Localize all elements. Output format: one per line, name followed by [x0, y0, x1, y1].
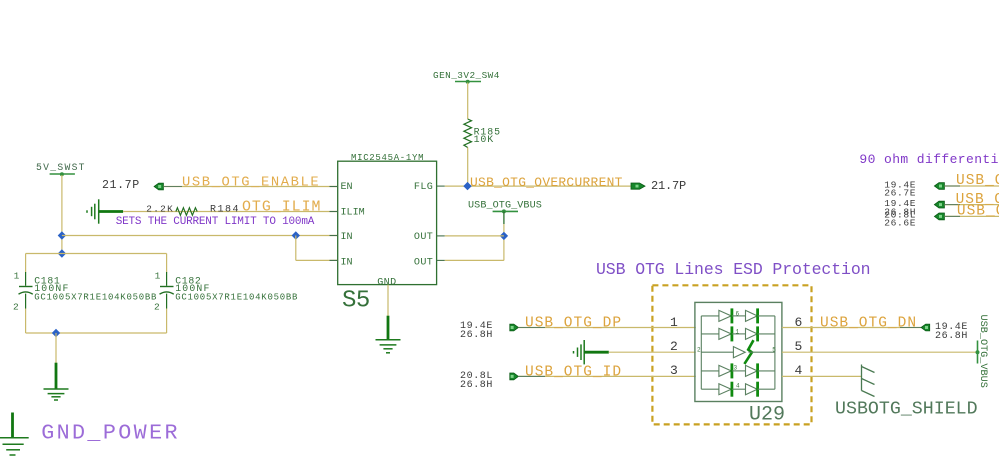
node junction OUT: [500, 232, 508, 240]
svg-text:USB_OTG_OVERCURRENT: USB_OTG_OVERCURRENT: [470, 175, 623, 190]
wire OUT1: [445, 235, 504, 237]
svg-text:S5: S5: [342, 288, 370, 315]
wire C181 top leg: [25, 254, 27, 273]
svg-text:R184: R184: [210, 205, 240, 216]
svg-text:GC1005X7R1E104K050BB: GC1005X7R1E104K050BB: [175, 293, 298, 303]
wire stub (green) ID: [518, 375, 545, 377]
wire C182 bottom leg: [166, 309, 168, 334]
wire right 1: [944, 185, 999, 187]
power flag 5V_SWST: [36, 162, 86, 176]
capacitor C181: [13, 271, 157, 313]
svg-text:USB_OTG_DP: USB_OTG_DP: [525, 315, 622, 331]
svg-text:GEN_3V2_SW4: GEN_3V2_SW4: [433, 70, 500, 81]
wire stub (green) DP: [518, 327, 545, 329]
supply USB_OTG_VBUS (mid): [468, 201, 542, 225]
svg-text:2: 2: [670, 339, 678, 354]
node junction cap rail: [58, 249, 66, 257]
wire IN2 drop: [295, 236, 297, 261]
wire VBUS drop: [503, 224, 505, 260]
ground (ILIM, rotated): [87, 199, 123, 223]
svg-text:3: 3: [670, 363, 678, 378]
wire C181 bottom leg: [25, 309, 27, 334]
wire 5V_SWST vertical: [61, 175, 63, 254]
arrow port right 3: [934, 213, 944, 220]
wire R185 top: [467, 83, 469, 120]
ground (IC): [376, 316, 401, 353]
svg-text:2: 2: [13, 302, 19, 313]
arrow port overcurrent: [631, 183, 645, 189]
svg-text:U29: U29: [749, 404, 785, 427]
arrow port USB_OTG_ID: [510, 373, 519, 380]
svg-text:USB OTG Lines ESD Protection: USB OTG Lines ESD Protection: [596, 260, 870, 279]
diode pair row D: [701, 363, 775, 378]
svg-text:4: 4: [795, 363, 803, 378]
wire stub (green) enable: [163, 186, 182, 188]
wire ESD pin5 to VBUS: [782, 351, 978, 353]
node junction IN2: [292, 231, 300, 239]
wire ESD pin2: [609, 351, 696, 353]
op-amp/regulator U S5 MIC2545A-1YM: [338, 153, 437, 315]
svg-text:1: 1: [736, 329, 740, 336]
svg-text:MIC2545A-1YM: MIC2545A-1YM: [351, 153, 424, 163]
svg-text:26.8H: 26.8H: [935, 331, 968, 342]
svg-text:26.6E: 26.6E: [884, 217, 916, 228]
wire stub (green) right 3: [944, 215, 960, 217]
wire OUT2: [445, 259, 504, 261]
ESD chip U29: [695, 302, 785, 426]
wire stub (green) right 2: [944, 204, 960, 206]
svg-text:EN: EN: [341, 182, 353, 193]
svg-text:26.8H: 26.8H: [460, 380, 493, 391]
svg-text:2: 2: [154, 302, 160, 313]
wire USB_OTG_ENABLE: [163, 186, 337, 188]
svg-text:10K: 10K: [474, 134, 494, 145]
node junction gnd rail: [52, 329, 60, 337]
node junction 5V/IN: [58, 231, 66, 239]
svg-text:USB_OTG_ID: USB_OTG_ID: [525, 364, 622, 380]
svg-text:1: 1: [155, 271, 161, 282]
ground legend GND_POWER: [0, 413, 180, 456]
wire right 3: [944, 215, 999, 217]
resistor R184: [176, 208, 197, 216]
pin stubs left (EN/ILIM/IN/IN): [330, 187, 338, 261]
wire USB_OTG_DP: [518, 327, 695, 329]
wire R185 bottom: [467, 148, 469, 187]
svg-text:ILIM: ILIM: [341, 208, 365, 219]
svg-text:1: 1: [670, 315, 678, 330]
wire GND pin: [387, 285, 389, 317]
svg-text:FLG: FLG: [414, 182, 433, 193]
wire stub (green) DN: [900, 327, 921, 329]
svg-text:26.7E: 26.7E: [884, 187, 916, 198]
wire cap top rail: [26, 253, 167, 255]
svg-text:USB_OT: USB_OT: [957, 204, 999, 220]
power flag GEN_3V2_SW4: [433, 70, 500, 84]
wire stub (green) right 1: [944, 185, 960, 187]
svg-text:6: 6: [736, 311, 740, 318]
wire ILIM: [123, 211, 338, 213]
wire USB_OTG_DN: [782, 327, 921, 329]
svg-text:2.2K: 2.2K: [146, 203, 174, 214]
supply USB_OTG_VBUS (right, rotated): [976, 315, 989, 388]
svg-text:IN: IN: [341, 232, 353, 243]
capacitor C182: [154, 271, 298, 313]
arrow port USB_OTG_DN: [921, 324, 930, 331]
svg-text:GC1005X7R1E104K050BB: GC1005X7R1E104K050BB: [34, 293, 157, 303]
svg-text:USB_OTG_VBUS: USB_OTG_VBUS: [977, 315, 988, 388]
svg-text:GND: GND: [377, 277, 396, 288]
diode pair row B: [701, 326, 775, 341]
wire C182 top leg: [166, 254, 168, 273]
resistor R185: [464, 119, 472, 148]
TVS diode row C: [697, 340, 776, 364]
svg-text:OUT: OUT: [414, 257, 433, 268]
wire right 2: [944, 204, 999, 206]
wire gnd drop: [55, 333, 57, 364]
node junction FLG: [463, 182, 471, 190]
shield symbol USBOTG_SHIELD: [862, 365, 875, 397]
svg-text:5: 5: [772, 346, 776, 353]
pin stubs right (FLG/OUT/OUT): [437, 186, 445, 260]
svg-text:USB_OTG_DN: USB_OTG_DN: [820, 315, 917, 331]
svg-text:OUT: OUT: [414, 232, 433, 243]
diode pair row A: [701, 308, 775, 323]
ground (ESD pin2, rotated): [574, 340, 609, 364]
diode pair row E: [701, 382, 775, 397]
ground (caps): [44, 363, 69, 400]
wire ESD pin4 to shield: [782, 375, 862, 377]
arrow port USB_OTG_DP: [510, 324, 519, 331]
svg-text:1: 1: [14, 271, 20, 282]
svg-text:21.7P: 21.7P: [651, 179, 686, 193]
arrow port USB_OTG_ENABLE: [154, 183, 163, 190]
svg-text:2: 2: [697, 346, 701, 353]
arrow port right 1: [934, 183, 944, 190]
svg-text:3: 3: [734, 365, 738, 372]
wire USB_OTG_ID: [518, 375, 695, 377]
svg-text:21.7P: 21.7P: [102, 179, 140, 192]
wire IN1: [62, 235, 338, 237]
svg-text:GND_POWER: GND_POWER: [41, 421, 180, 446]
svg-text:USBOTG_SHIELD: USBOTG_SHIELD: [835, 399, 978, 419]
arrow port right 2: [934, 201, 944, 208]
wire cap bottom rail: [26, 332, 167, 334]
dashed ESD box: [652, 285, 811, 424]
wire IN2: [296, 259, 338, 261]
svg-text:5V_SWST: 5V_SWST: [36, 162, 86, 173]
wire FLG to arrow: [445, 185, 631, 187]
svg-text:26.8H: 26.8H: [460, 330, 493, 341]
svg-text:4: 4: [736, 383, 740, 390]
svg-text:SETS THE CURRENT LIMIT TO 100m: SETS THE CURRENT LIMIT TO 100mA: [116, 216, 315, 228]
svg-text:90 ohm differenti: 90 ohm differenti: [859, 152, 998, 167]
svg-text:USB_OT: USB_OT: [956, 173, 999, 189]
svg-text:USB_OTG_ENABLE: USB_OTG_ENABLE: [182, 176, 320, 191]
svg-text:IN: IN: [341, 257, 353, 268]
svg-text:OTG_ILIM: OTG_ILIM: [242, 200, 322, 216]
